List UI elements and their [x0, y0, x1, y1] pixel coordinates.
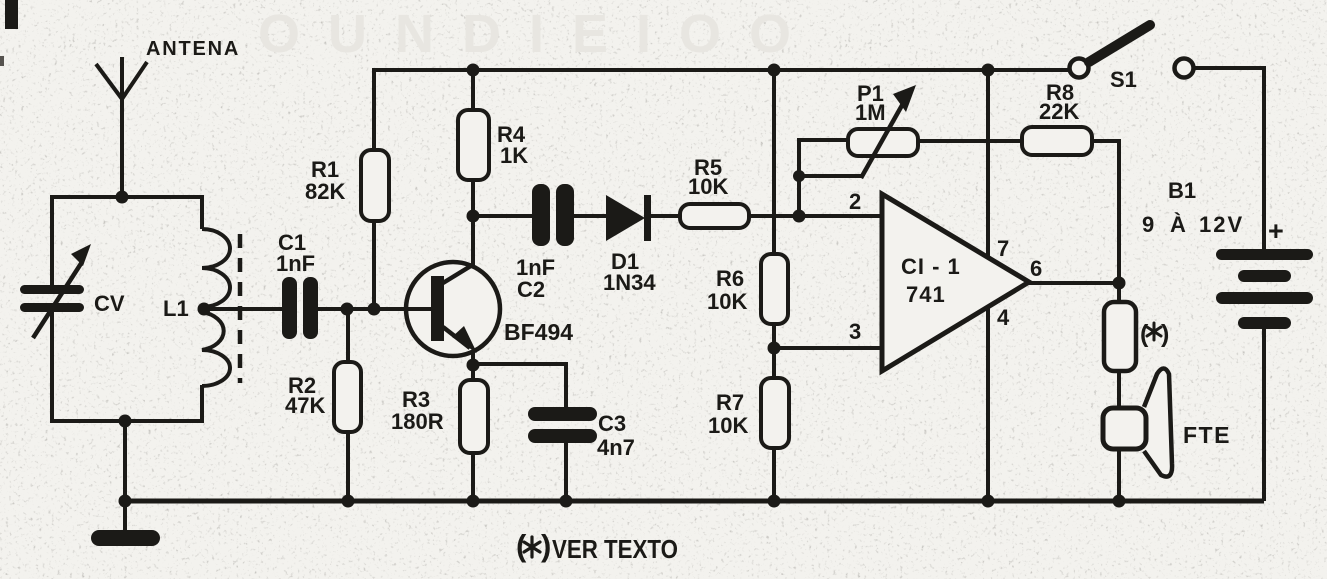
svg-text:180R: 180R	[391, 409, 444, 434]
svg-text:FTE: FTE	[1183, 422, 1231, 448]
capacitor C3	[528, 407, 597, 443]
ground	[91, 501, 160, 546]
wire C1 to base	[318, 307, 431, 311]
wire pin4	[986, 306, 990, 501]
core dashed line	[238, 234, 243, 383]
node R1 junction	[368, 303, 381, 316]
resistor R5	[680, 204, 749, 228]
svg-text:C2: C2	[517, 277, 545, 302]
wire tap to C1	[204, 307, 284, 311]
node R2 junction	[341, 303, 354, 316]
svg-text:R7: R7	[716, 390, 744, 415]
svg-text:BF494: BF494	[504, 319, 573, 345]
svg-text:CI - 1: CI - 1	[901, 254, 961, 279]
svg-text:22K: 22K	[1039, 99, 1079, 124]
node output junction	[1113, 277, 1126, 290]
wire output	[1029, 281, 1119, 285]
svg-text:741: 741	[906, 282, 946, 307]
resistor R1	[361, 68, 389, 309]
resistor star	[1104, 283, 1136, 410]
diode D1	[606, 195, 651, 241]
svg-text:10K: 10K	[707, 289, 747, 314]
svg-text:): )	[1161, 320, 1169, 348]
svg-text:4n7: 4n7	[597, 435, 635, 460]
svg-text:7: 7	[997, 236, 1009, 261]
wire top supply rail	[372, 68, 1070, 72]
capacitor C2	[532, 184, 574, 246]
switch S1	[1070, 25, 1194, 78]
resistor R6	[761, 70, 788, 348]
wire antenna node horizontal	[52, 195, 202, 199]
resistor R8	[1022, 127, 1092, 155]
svg-text:OUNDIEIOO: OUNDIEIOO	[258, 4, 819, 64]
node rail pin7	[982, 64, 995, 77]
svg-text:+: +	[1268, 216, 1284, 246]
wire tank to ground rail	[123, 421, 127, 501]
svg-text:L1: L1	[163, 296, 189, 321]
svg-text:4: 4	[997, 305, 1010, 330]
capacitor CV	[20, 244, 91, 338]
capacitor C1	[282, 277, 318, 339]
svg-text:82K: 82K	[305, 179, 345, 204]
wire battery to ground rail	[1262, 329, 1266, 501]
wire P1 left lead	[799, 140, 849, 216]
transistor Q1	[406, 216, 500, 366]
label star	[1140, 320, 1169, 348]
svg-text:1N34: 1N34	[603, 270, 656, 295]
battery B1	[1216, 249, 1313, 329]
node rail pin4	[982, 495, 995, 508]
svg-text:1nF: 1nF	[276, 251, 315, 276]
svg-text:S1: S1	[1110, 67, 1137, 92]
node P1 lead corner	[793, 170, 805, 182]
wire pin3	[774, 346, 882, 350]
resistor R4	[458, 70, 489, 216]
wire ground rail	[125, 499, 1264, 504]
resistor R3	[460, 365, 488, 501]
svg-text:ANTENA: ANTENA	[146, 38, 240, 60]
node rail speaker	[1113, 495, 1126, 508]
wire R8 to output	[1092, 141, 1119, 283]
wire P1 to R8	[917, 139, 1024, 143]
svg-text:1M: 1M	[855, 100, 886, 125]
op-amp U1	[882, 194, 1029, 371]
node ground rail left	[119, 495, 132, 508]
svg-text:47K: 47K	[285, 393, 325, 418]
svg-text:3: 3	[849, 319, 861, 344]
wire tank bottom horizontal	[50, 419, 202, 423]
svg-text:C3: C3	[598, 411, 626, 436]
node rail R6	[768, 64, 781, 77]
wire C2 to D1	[574, 214, 608, 218]
svg-text:À: À	[1170, 212, 1186, 237]
wire collector to C2	[473, 214, 534, 218]
svg-text:): )	[541, 528, 551, 563]
wire left vertical lower	[50, 312, 54, 423]
antenna	[96, 57, 147, 197]
node collector junction	[467, 210, 480, 223]
speaker FTE	[1103, 369, 1172, 502]
inductor L1	[202, 195, 230, 423]
wire emitter to C3	[473, 364, 566, 408]
node rail R4	[467, 64, 480, 77]
node emitter junction	[467, 359, 480, 372]
potentiometer P1	[799, 85, 918, 178]
node rail R7	[768, 495, 781, 508]
resistor R2	[334, 309, 361, 501]
node L1 tap	[198, 303, 211, 316]
svg-text:10K: 10K	[688, 174, 728, 199]
svg-text:(: (	[516, 528, 527, 563]
note ver texto	[516, 528, 678, 564]
resistor R7	[761, 348, 789, 501]
svg-text:12V: 12V	[1199, 212, 1244, 237]
node P1 left junction	[793, 210, 806, 223]
svg-text:9: 9	[1142, 212, 1154, 237]
wire C3 to ground rail	[564, 443, 568, 501]
wire left vertical upper	[50, 195, 54, 286]
node rail C3	[560, 495, 573, 508]
node rail R3	[467, 495, 480, 508]
svg-text:R6: R6	[716, 266, 744, 291]
node antenna junction	[116, 191, 129, 204]
svg-text:VER TEXTO: VER TEXTO	[552, 534, 678, 564]
svg-text:6: 6	[1030, 256, 1042, 281]
svg-text:B1: B1	[1168, 178, 1196, 203]
wire S1 to battery	[1194, 68, 1264, 251]
svg-text:1K: 1K	[500, 143, 528, 168]
node divider junction	[768, 342, 781, 355]
wire pin7	[986, 70, 990, 258]
svg-text:2: 2	[849, 189, 861, 214]
svg-text:CV: CV	[94, 291, 125, 316]
wire R5 to pin2	[749, 214, 882, 218]
wire D1 to R5	[650, 214, 682, 218]
node tank bottom junction	[119, 415, 132, 428]
node rail R2	[342, 495, 355, 508]
svg-text:10K: 10K	[708, 413, 748, 438]
